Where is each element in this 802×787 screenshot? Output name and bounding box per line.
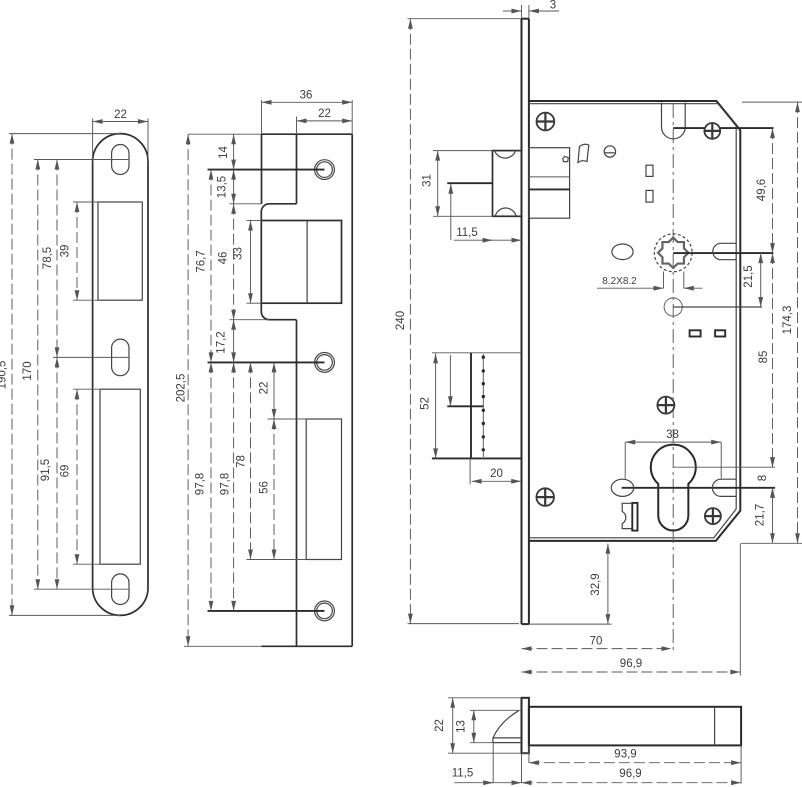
extension line right bottom xyxy=(741,542,802,544)
step contour upper xyxy=(261,204,296,221)
faceplate right edge xyxy=(351,134,353,646)
small rect pair lower 2 xyxy=(715,330,725,336)
screw above cylinder xyxy=(657,397,674,414)
svg-text:22: 22 xyxy=(114,109,127,121)
handle holes center line xyxy=(622,487,775,489)
hub center line vertical xyxy=(672,104,674,652)
svg-text:91,5: 91,5 xyxy=(40,459,52,481)
dimension 36 xyxy=(262,101,353,103)
lock case inner top line xyxy=(529,104,736,126)
faceplate bottom edge xyxy=(262,645,353,647)
dimension 96,9 extension xyxy=(739,544,741,676)
screw 3 center line xyxy=(208,610,325,612)
extension lines faceplate xyxy=(230,203,262,205)
strike plate middle screw slot xyxy=(112,339,129,376)
deadbolt chamber top line xyxy=(432,352,522,354)
latch bolt xyxy=(493,151,522,217)
cylinder center line horizontal xyxy=(673,466,775,468)
deadbolt front edge xyxy=(470,353,472,459)
svg-text:13: 13 xyxy=(456,720,468,733)
svg-text:8.2X8.2: 8.2X8.2 xyxy=(602,276,637,287)
dimension 11,5 line xyxy=(454,239,522,241)
dimension 20 extension xyxy=(469,458,471,484)
svg-text:170: 170 xyxy=(22,361,34,380)
hole center line xyxy=(673,306,762,308)
dimension 31 extension lines xyxy=(433,150,493,152)
dimension 31 xyxy=(437,151,439,217)
deadbolt inner line xyxy=(447,405,483,407)
dimension 170 xyxy=(37,160,39,590)
dimension 52 xyxy=(435,353,437,458)
dimension 78 xyxy=(250,362,252,559)
latch extension line xyxy=(492,743,494,783)
svg-text:22: 22 xyxy=(318,108,331,120)
screw top left xyxy=(537,113,555,131)
dimension 22 (plate width) xyxy=(93,121,148,123)
svg-text:97,8: 97,8 xyxy=(220,473,232,495)
strike plate deadbolt opening rect xyxy=(100,389,140,564)
dimension 240 xyxy=(409,19,411,624)
dimension 22 vertical xyxy=(273,362,275,419)
latch bevel curve xyxy=(493,711,519,738)
dimension 38 xyxy=(625,441,721,443)
lock case inner right line xyxy=(735,126,737,509)
case edge lower xyxy=(296,320,298,647)
svg-text:97,8: 97,8 xyxy=(195,473,207,495)
svg-text:174,3: 174,3 xyxy=(782,306,794,335)
latch bolt top bevel arc xyxy=(495,151,516,158)
dimension 97,8 right xyxy=(233,362,235,611)
dimension 38 extensions xyxy=(624,442,626,478)
strike plate bottom screw slot xyxy=(112,574,129,605)
deadbolt chamber bottom line xyxy=(432,457,522,459)
extension lines 22 dim xyxy=(92,119,94,162)
dimension 96,9 bottom xyxy=(522,782,742,784)
spring clip xyxy=(578,144,589,162)
small rect pair upper 2 xyxy=(646,190,653,202)
dimension 174,3 xyxy=(797,102,799,543)
extension lines 69 dim xyxy=(73,388,100,390)
extension 240 bottom xyxy=(408,623,520,625)
svg-text:13,5: 13,5 xyxy=(217,176,229,198)
dimension 91,5 xyxy=(56,357,58,589)
svg-text:36: 36 xyxy=(300,90,313,102)
svg-text:56: 56 xyxy=(259,481,271,494)
handle hole right D xyxy=(712,479,736,496)
dimension 11,5 bottom xyxy=(454,782,521,784)
lock case outline xyxy=(529,101,740,541)
latch lines xyxy=(493,737,522,739)
hub upper reference line xyxy=(673,127,773,129)
center line middle slot xyxy=(53,356,129,358)
lock case inner bottom line xyxy=(529,509,736,538)
svg-text:39: 39 xyxy=(60,245,72,258)
latch guide line xyxy=(447,182,492,184)
latch top line xyxy=(470,709,522,711)
svg-text:69: 69 xyxy=(60,465,72,478)
screw right of cylinder xyxy=(705,508,721,524)
dimension 11,5 vertical leader xyxy=(450,184,452,240)
case bar xyxy=(529,707,741,746)
deadbolt leader line xyxy=(449,355,451,406)
latch block line 2 xyxy=(529,188,570,190)
latch bevel divider xyxy=(306,221,308,304)
dimension 85 xyxy=(772,253,774,467)
dimension 20 xyxy=(472,480,522,482)
hole below hub xyxy=(664,298,682,316)
right keep D-shape xyxy=(713,243,736,259)
screw mid left xyxy=(536,488,554,506)
svg-text:96,9: 96,9 xyxy=(620,658,642,670)
svg-text:78,5: 78,5 xyxy=(42,247,54,269)
dimension 93,9 xyxy=(529,762,741,764)
screw 2 center line xyxy=(208,361,325,363)
handle hole left oval xyxy=(611,479,633,496)
dimension 21,7 xyxy=(772,488,774,544)
dimension 69 xyxy=(76,389,78,564)
dimension 97,8 left xyxy=(210,362,212,611)
extension 240 top xyxy=(408,18,522,20)
svg-text:240: 240 xyxy=(395,311,407,330)
latch opening rect xyxy=(261,221,341,304)
euro cylinder profile xyxy=(651,445,696,531)
strike plate latch opening rect xyxy=(98,202,142,300)
dimension 8.2X8.2 extension lines xyxy=(663,272,665,289)
dimension 96,9 xyxy=(522,671,741,673)
center line bottom slot xyxy=(34,588,129,590)
strike plate outline xyxy=(93,134,148,616)
small rect pair lower 1 xyxy=(690,330,701,336)
ellipse left of hub xyxy=(612,244,633,260)
dimension 78,5 xyxy=(56,160,58,358)
extension line right top xyxy=(742,101,802,103)
dimension 202,5 xyxy=(187,134,189,646)
svg-text:52: 52 xyxy=(420,397,432,410)
dimension 46 xyxy=(233,204,235,320)
svg-text:11,5: 11,5 xyxy=(452,768,474,780)
svg-text:96,9: 96,9 xyxy=(619,768,641,780)
dimension 8 xyxy=(772,459,774,467)
deadbolt opening rect xyxy=(306,419,341,560)
top keep U-shape xyxy=(662,103,686,139)
svg-text:8: 8 xyxy=(757,475,769,481)
dimension 76,7 xyxy=(210,170,212,363)
dimension 56 xyxy=(273,419,275,560)
case bar inner line xyxy=(714,707,716,746)
dimension 21,5 xyxy=(760,253,762,307)
dimension 93,9 extension xyxy=(528,745,530,763)
svg-text:21,5: 21,5 xyxy=(743,265,755,287)
screw 1 center line xyxy=(208,169,325,171)
top screw hole xyxy=(315,160,335,180)
center line top slot xyxy=(34,159,129,161)
svg-text:17,2: 17,2 xyxy=(216,331,228,353)
dimension 13,5 xyxy=(233,170,235,204)
small square detail xyxy=(563,156,569,161)
svg-text:190,5: 190,5 xyxy=(0,361,9,390)
svg-text:31: 31 xyxy=(422,174,434,187)
svg-text:38: 38 xyxy=(666,429,679,441)
faceplate top edge xyxy=(262,133,353,135)
dimension 32,9 extension xyxy=(529,623,612,625)
dimension 190,5 xyxy=(11,134,13,616)
dimension 39 xyxy=(76,202,78,300)
dimension 22 top xyxy=(297,120,353,122)
svg-text:33: 33 xyxy=(233,247,245,260)
svg-text:46: 46 xyxy=(218,252,230,265)
extension lines 190.5 dim xyxy=(9,133,120,135)
bottom screw hole xyxy=(315,601,335,621)
dimension 33 xyxy=(250,221,252,304)
hub center line horizontal xyxy=(673,252,773,254)
hub outer circle xyxy=(654,234,692,272)
hub star spindle hole 8.2x8.2 xyxy=(658,238,688,268)
svg-text:76,7: 76,7 xyxy=(196,250,208,272)
svg-text:70: 70 xyxy=(590,636,603,648)
dimension 13 xyxy=(473,710,475,742)
svg-text:22: 22 xyxy=(259,382,271,395)
latch block in case xyxy=(529,148,570,219)
dimension 96,9 extension xyxy=(740,745,742,783)
deadbolt hidden line dots xyxy=(482,356,485,452)
svg-text:78: 78 xyxy=(236,455,248,468)
extension lines 39 dim xyxy=(73,201,98,203)
svg-text:49,6: 49,6 xyxy=(756,179,768,201)
svg-text:85: 85 xyxy=(758,351,770,364)
dimension 70 xyxy=(522,648,672,650)
dimension 8.2X8.2 xyxy=(597,287,664,289)
svg-text:11,5: 11,5 xyxy=(456,227,478,239)
small pin circle xyxy=(604,146,615,157)
latch bolt bottom bevel arc xyxy=(495,208,516,216)
dimension 22 bottom view xyxy=(452,698,454,753)
dimension 22 extensions xyxy=(448,697,522,699)
cylinder fixing bracket xyxy=(622,503,632,528)
middle screw hole xyxy=(315,353,335,373)
dimension 32,9 xyxy=(607,544,609,625)
small rect pair upper 1 xyxy=(646,165,653,176)
svg-text:93,9: 93,9 xyxy=(614,749,636,761)
latch block line 1 xyxy=(529,176,570,178)
strike plate top screw slot xyxy=(112,145,129,175)
dimension 17,2 xyxy=(233,320,235,363)
case edge upper xyxy=(296,134,298,204)
dimension 14 xyxy=(233,134,235,169)
faceplate strip back xyxy=(528,19,530,624)
svg-text:20: 20 xyxy=(490,468,503,480)
screw top right xyxy=(704,123,720,139)
svg-text:22: 22 xyxy=(434,719,446,732)
svg-text:21,7: 21,7 xyxy=(755,504,767,526)
svg-text:3: 3 xyxy=(550,0,556,12)
deadbolt hidden line xyxy=(482,354,484,457)
svg-text:32,9: 32,9 xyxy=(590,573,602,595)
faceplate strip top cap xyxy=(522,18,529,20)
faceplate bar xyxy=(522,698,529,753)
case left edge upper xyxy=(261,134,263,204)
svg-text:14: 14 xyxy=(218,146,230,159)
dimension 49,6 xyxy=(772,128,774,253)
dimension 13 extension xyxy=(470,742,493,744)
faceplate strip front xyxy=(521,19,523,624)
svg-text:202,5: 202,5 xyxy=(176,374,188,403)
dimension 3 (faceplate thickness) xyxy=(503,10,522,12)
faceplate strip bottom cap xyxy=(522,623,529,625)
step contour lower xyxy=(261,303,296,320)
